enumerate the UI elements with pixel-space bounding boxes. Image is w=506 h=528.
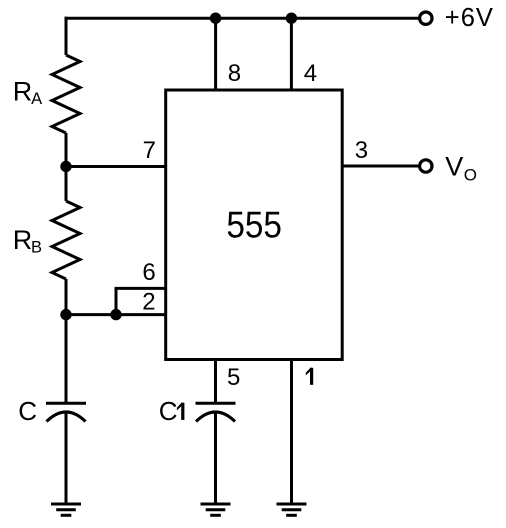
node: junction RA/RB/pin7 [60,161,71,172]
terminal: +6V open circle [420,12,432,24]
wire: pin 8 [214,18,217,90]
node: junction pin6 drop on pin2 wire [110,309,121,320]
label Vo [445,151,477,184]
wire: pin 7 [66,165,166,168]
node: junction rail/pin2 [60,309,71,320]
label C [18,396,37,426]
ground (below C) [51,503,81,506]
pin label 2 [142,289,155,316]
resistor RB [52,201,80,279]
label RA [13,77,42,108]
label +6V [445,4,494,32]
capacitor C1 top plate [196,402,236,405]
pin label 3 [355,137,368,164]
wire: pin 1 to ground [290,360,293,505]
svg-text:7: 7 [143,137,156,164]
IC label 555 [226,205,282,246]
pin label 7 [143,137,156,164]
wire: node to RB top [65,167,68,202]
ground (below C1) [201,503,231,506]
wire: +6V top rail [65,17,419,20]
label C1 [159,396,178,426]
wire: capacitor C to ground [65,412,68,504]
node: junction pin 8 on top rail [210,13,221,24]
terminal: Vo open circle [420,160,432,172]
svg-text:8: 8 [228,60,241,87]
pin label 8 [228,60,241,87]
wire: pin 4 [290,18,293,90]
wire: pin 3 [342,165,419,168]
node: junction pin 4 on top rail [286,13,297,24]
pin label 5 [227,364,240,391]
wire: rail down to capacitor C [65,315,68,402]
svg-text:4: 4 [304,60,317,87]
capacitor C1 curved plate [196,412,235,422]
resistor RA [52,55,80,133]
capacitor C curved plate [47,412,86,422]
svg-text:555: 555 [226,205,282,246]
IC 555 body [166,90,343,360]
wire: RB bottom to node 2 [65,279,68,315]
capacitor C top plate [46,402,86,405]
svg-text:5: 5 [227,364,240,391]
pin label 6 [142,259,155,286]
pin label 4 [304,60,317,87]
pin label 1 [306,368,313,385]
svg-text:C: C [18,396,37,426]
svg-text:3: 3 [355,137,368,164]
svg-text:6: 6 [142,259,155,286]
wire: pin 2 [66,313,166,316]
wire: RA bottom to node [65,133,68,167]
wire: pin 5 [214,360,217,403]
wire: pin 6 L-shape [116,288,166,314]
wire: capacitor C1 to ground [214,412,217,504]
ground (below pin 1) [277,503,307,506]
svg-text:C: C [159,396,178,426]
svg-text:+6V: +6V [445,4,494,32]
label RB [13,225,42,256]
wire: left rail top segment [65,17,68,55]
svg-text:2: 2 [142,289,155,316]
